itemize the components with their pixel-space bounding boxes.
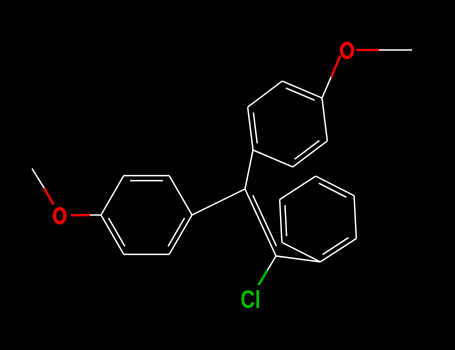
svg-text:Cl: Cl bbox=[241, 286, 261, 314]
